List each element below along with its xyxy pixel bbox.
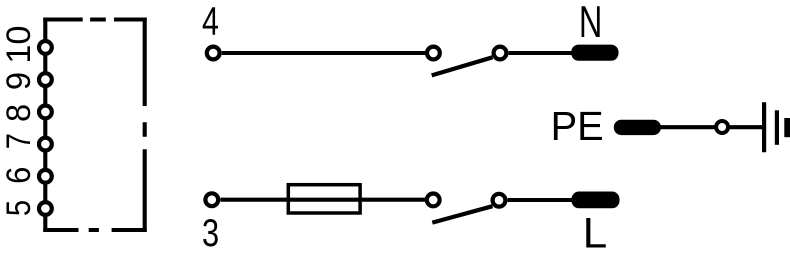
earth contact circle	[716, 121, 728, 133]
wire switch S1 to terminal N	[509, 51, 573, 55]
wire node4 to switch S1	[222, 51, 425, 55]
terminal blade N	[571, 45, 618, 61]
terminal pin 7	[39, 138, 52, 151]
node 4 terminal circle	[207, 47, 220, 60]
wire switch S2 to terminal L	[508, 198, 573, 202]
wire earth contact to earth symbol	[730, 125, 763, 129]
fuse F1 body	[288, 185, 360, 213]
terminal pin 10	[39, 41, 52, 54]
terminal pin 5	[39, 202, 52, 215]
earth symbol long bar	[762, 102, 766, 152]
svg-text:N: N	[579, 0, 602, 47]
terminal pin 6	[39, 170, 52, 183]
switch S2 contact circle (right)	[493, 194, 506, 207]
earth symbol short bar	[784, 118, 790, 137]
terminal blade PE	[614, 120, 661, 135]
connector block X1 left edge	[43, 18, 47, 233]
svg-text:10: 10	[0, 26, 38, 64]
svg-text:6: 6	[0, 167, 37, 184]
wire terminal PE to earth contact circle	[659, 125, 715, 129]
switch S1 contact circle (right)	[494, 47, 507, 60]
connector block X1 bottom edge (dash-dot)	[43, 228, 146, 232]
svg-text:8: 8	[0, 104, 38, 122]
wire node3 through fuse to switch S2	[220, 198, 425, 202]
svg-text:PE: PE	[551, 102, 604, 149]
connector block X1 right edge (dash-dot)	[143, 18, 147, 233]
connector block X1 top edge (dash-dot)	[43, 17, 146, 21]
svg-text:L: L	[583, 210, 608, 255]
node 3 terminal circle	[205, 193, 218, 206]
svg-text:7: 7	[0, 133, 38, 149]
terminal pin 8	[39, 106, 52, 119]
svg-text:4: 4	[202, 0, 219, 44]
svg-text:9: 9	[0, 72, 38, 90]
switch S1 contact circle (left)	[427, 47, 440, 60]
switch S2 blade	[432, 206, 492, 222]
switch S2 contact circle (left)	[427, 194, 440, 207]
svg-text:3: 3	[202, 212, 219, 255]
svg-text:5: 5	[0, 200, 38, 216]
terminal blade L	[572, 192, 620, 209]
earth symbol middle bar	[775, 110, 779, 145]
switch S1 blade	[432, 57, 493, 75]
terminal pin 9	[39, 73, 52, 86]
